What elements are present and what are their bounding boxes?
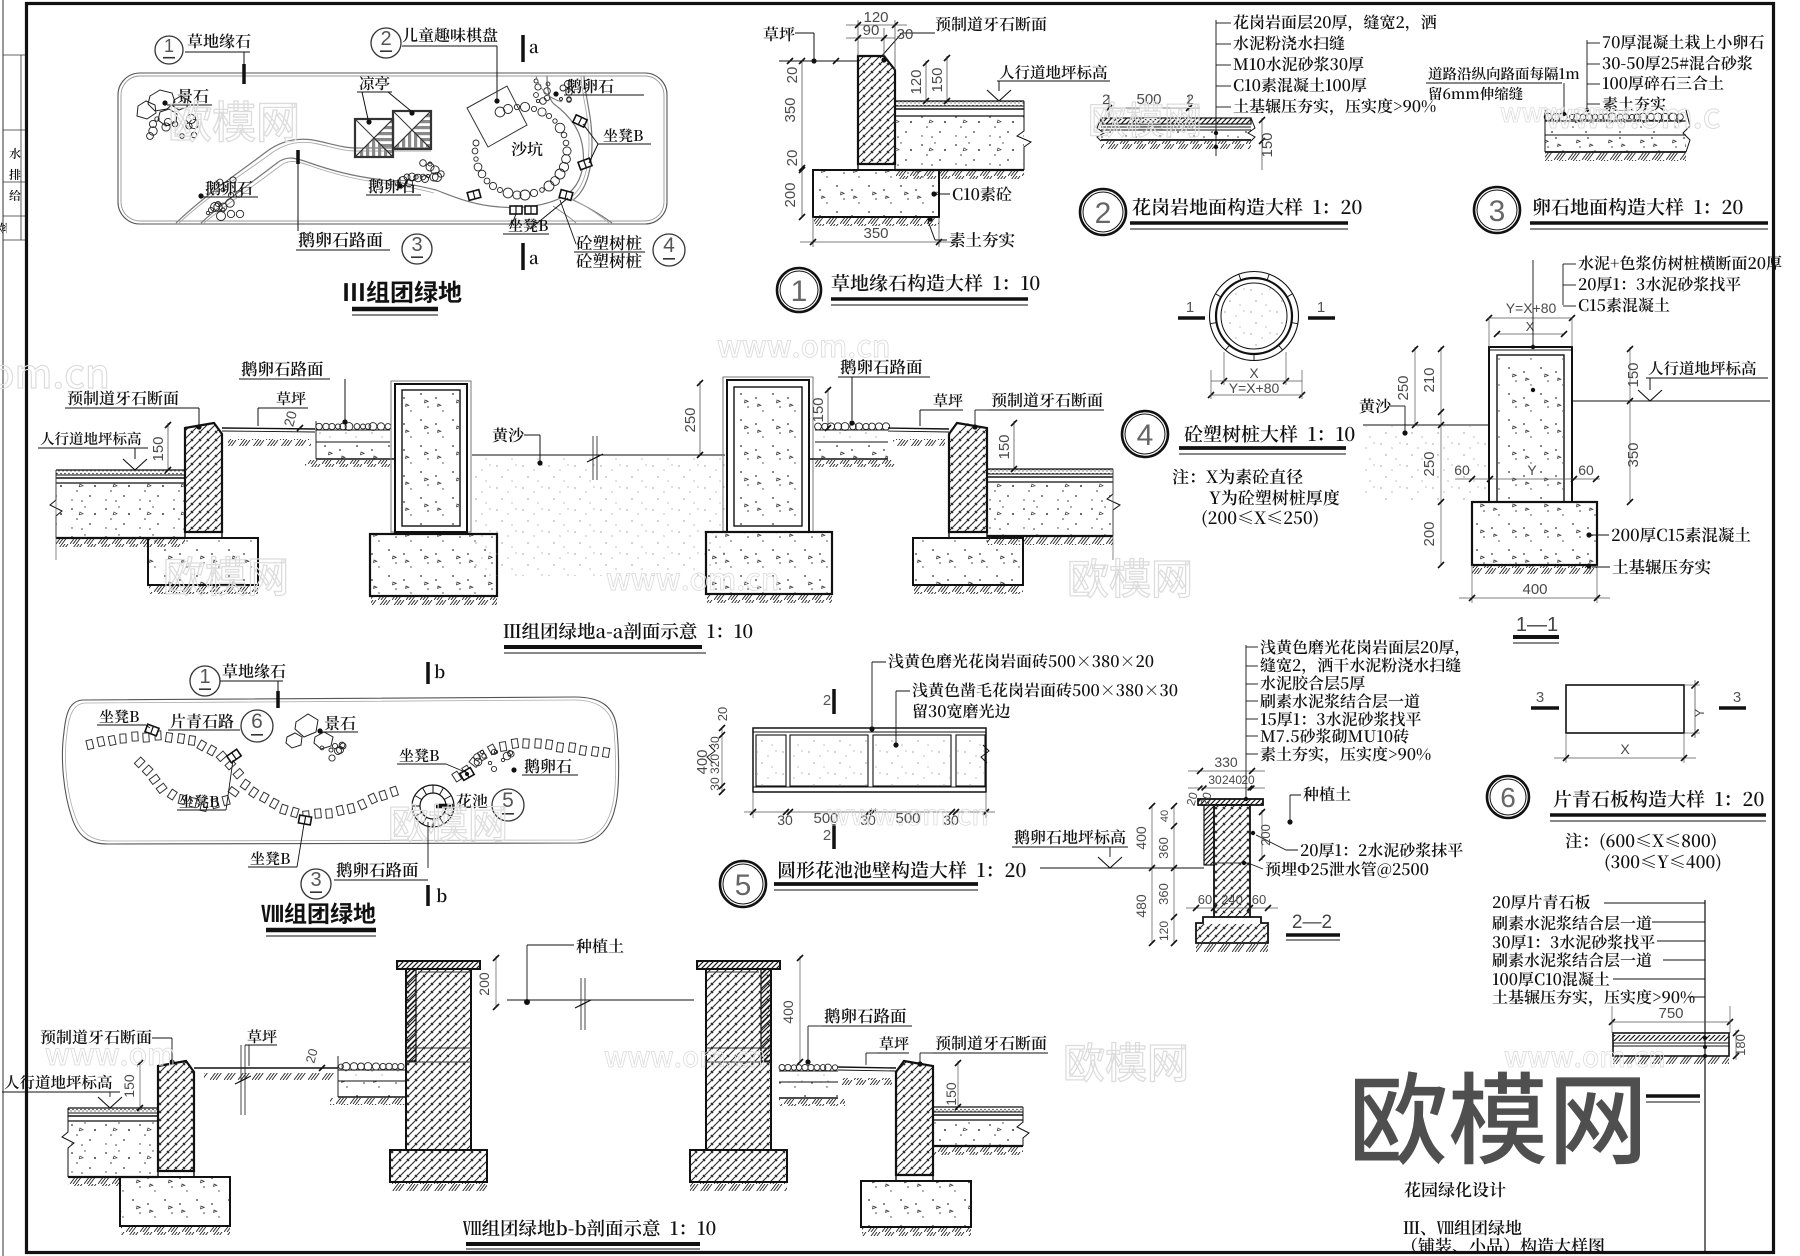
walk loop around sand pit (outer-right branch): [573, 76, 612, 223]
top dims 1-1: [1489, 317, 1572, 319]
callout 3 + title detail3: [1474, 187, 1520, 233]
label planting soil b-b: [576, 938, 623, 953]
sand pit pebble ring: [472, 102, 571, 200]
svg-text:30: 30: [708, 777, 722, 791]
svg-text:30: 30: [777, 812, 793, 828]
title detail 4: [1185, 425, 1355, 443]
wire walk upper edge: [176, 139, 431, 223]
curb bottom pad: [858, 164, 895, 170]
detail3 note l2: [1603, 55, 1753, 70]
d6 layer l4: [1492, 952, 1651, 967]
2-2 note l3: [1260, 675, 1364, 690]
svg-text:750: 750: [1658, 1005, 1683, 1022]
svg-text:1: 1: [164, 36, 174, 56]
svg-text:20: 20: [784, 67, 801, 84]
surface line right 1-1: [1572, 400, 1770, 402]
plan VIII boundary: [62, 697, 618, 844]
curb2 footing: [913, 538, 1023, 585]
left dims 1-1: [1414, 347, 1416, 425]
label curb b-b right: [936, 1035, 1047, 1050]
svg-text:X: X: [1620, 741, 1630, 757]
title detail 1: [832, 274, 1040, 292]
title VIII plan: [261, 902, 375, 924]
label sidewalk level d4: [1649, 361, 1756, 376]
svg-text:250: 250: [1395, 375, 1412, 400]
note X: [1173, 469, 1303, 485]
svg-text:3: 3: [1733, 689, 1741, 706]
flower pool circle VIII: [412, 785, 454, 827]
callout 2 + title detail2: [1080, 189, 1126, 235]
detail3 note l4: [1603, 96, 1666, 111]
dim 150 road right: [827, 388, 829, 430]
leaders top 1-1: [1532, 260, 1534, 345]
svg-text:6: 6: [251, 710, 263, 733]
detail2 note line4: [1234, 77, 1367, 92]
svg-text:1—1: 1—1: [1516, 614, 1558, 636]
svg-text:30: 30: [1208, 773, 1222, 787]
svg-text:240: 240: [1221, 892, 1243, 907]
pavement break mark right: [1017, 101, 1031, 170]
svg-text:150: 150: [943, 1082, 959, 1106]
pebble cluster lower-left: [206, 177, 243, 221]
left sidewalk pavement b-b: [68, 1108, 158, 1113]
walk exit bottom-right inner line: [553, 206, 576, 223]
tick on boundary: [242, 64, 246, 84]
section marks 2 detail5: [832, 689, 836, 714]
label zuodengB mid VIII: [180, 794, 219, 808]
note Y range: [1606, 854, 1721, 871]
break mark planting b-b: [580, 978, 582, 1030]
svg-text:2: 2: [823, 692, 831, 709]
dim 150 right: [1261, 118, 1263, 170]
dim Y detail6: [1684, 684, 1700, 686]
right sidewalk pavement b-b: [933, 1107, 1023, 1112]
right sidewalk pavement a-a: [987, 469, 1113, 474]
title detail 3: [1534, 198, 1743, 216]
slab path chain VIII: [86, 731, 244, 779]
post1 (concrete tree stump) a-a: [391, 381, 471, 532]
svg-text:150: 150: [1625, 362, 1642, 387]
label eluanshilumian a-a left: [242, 361, 323, 376]
title detail 6: [1554, 790, 1764, 808]
svg-text:400: 400: [780, 1000, 796, 1024]
pebble pocket top right: [534, 79, 573, 104]
svg-text:330: 330: [1214, 754, 1238, 770]
svg-text:Y=X+80: Y=X+80: [1506, 300, 1557, 316]
label caodiyuanshi: [188, 33, 251, 48]
right dim 200 2-2: [1261, 810, 1263, 860]
label compacted soil d4: [1613, 559, 1711, 574]
svg-text:1: 1: [1317, 299, 1325, 316]
facing strip left: [1204, 805, 1214, 865]
curb b-b left: [158, 1061, 194, 1171]
dims left 20/350/20/200: [801, 61, 803, 217]
curb block hatched: [858, 56, 895, 164]
svg-text:150: 150: [996, 434, 1013, 459]
60 Y 60 dims: [1455, 478, 1600, 480]
label pebble road b-b: [825, 1008, 906, 1023]
break marks d2: [1097, 118, 1104, 141]
curb a-a right: [949, 423, 987, 532]
title block separator: [1704, 900, 1706, 1252]
curb footing b-b left: [120, 1177, 230, 1226]
d4 note l3: [1579, 297, 1670, 312]
leaders texts detail2: [1215, 20, 1217, 156]
svg-text:3: 3: [1489, 195, 1506, 228]
curb footing a-a left: [148, 538, 258, 585]
footing C10: [813, 170, 939, 217]
title detail 5: [779, 861, 1026, 879]
svg-text:3: 3: [411, 234, 422, 256]
rocks jingshi VIII: [286, 714, 333, 749]
dim 150 curb right: [1013, 421, 1015, 469]
svg-text:240: 240: [1222, 773, 1242, 787]
dim 250 sand: [699, 381, 701, 455]
dim 180 right: [1735, 1030, 1737, 1060]
pebble road a-a right: [815, 423, 890, 431]
note expansion joint l1: [1428, 67, 1579, 81]
detail2 note line1: [1233, 14, 1436, 31]
dims wall B right: [799, 956, 801, 1063]
callout5 + title detail5: [720, 861, 766, 907]
svg-text:20: 20: [784, 150, 801, 167]
section 1-1 post: [1489, 346, 1572, 348]
dim 400 bottom 1-1: [1471, 565, 1473, 603]
svg-text:5: 5: [735, 869, 752, 902]
section mark a top: [521, 35, 525, 62]
d4 note l2: [1579, 276, 1741, 291]
sand left of post 1-1: [1363, 424, 1489, 426]
planting soil line between walls: [507, 999, 694, 1001]
svg-text:30: 30: [897, 26, 914, 43]
label planting soil 2-2: [1303, 786, 1350, 801]
svg-text:350: 350: [863, 225, 888, 242]
sand area between posts: [472, 454, 725, 456]
wall coping 2-2: [1198, 799, 1263, 805]
label shakeng: [511, 141, 542, 156]
2-2 note l2: [1260, 657, 1460, 674]
label huangsha a-a: [493, 427, 524, 442]
svg-text:30: 30: [943, 812, 959, 828]
dim 350 bottom: [812, 217, 814, 247]
scenic rocks jingshi cluster: [137, 90, 188, 126]
detail2 note line3: [1234, 56, 1364, 71]
titleblock project: [1404, 1182, 1505, 1198]
curb b-b right: [896, 1061, 933, 1175]
svg-text:250: 250: [682, 407, 699, 432]
label curb a-a right: [992, 392, 1103, 407]
label grass a-a left: [277, 391, 306, 405]
svg-text:4: 4: [663, 234, 675, 257]
titleblock sheet name l1: [1404, 1220, 1522, 1236]
svg-text:480: 480: [1133, 894, 1149, 918]
label caodiyuanshi VIII: [223, 663, 286, 678]
post2 footing: [706, 532, 832, 594]
pebbles right VIII: [474, 749, 514, 771]
pebble road b-b left: [339, 1063, 405, 1071]
section 1-1 footing: [1472, 502, 1597, 565]
title 3-3 (mostly behind logo): [1646, 1094, 1700, 1097]
svg-text:200: 200: [476, 972, 492, 996]
chessboard rotated square: [467, 86, 527, 147]
leader bracket detail3: [1586, 40, 1588, 108]
wire walk lower edge: [201, 158, 436, 223]
top dims 2-2: [1188, 770, 1265, 772]
break mark sand a-a: [592, 436, 594, 480]
label eluanshilumian a-a right: [841, 359, 922, 374]
label drain 2-2: [1266, 861, 1429, 877]
title section b-b: [463, 1219, 715, 1236]
label curb b-b left: [41, 1029, 152, 1044]
2-2 note l5: [1261, 711, 1421, 726]
label mortar 2-2: [1301, 842, 1463, 857]
svg-text:200: 200: [1258, 824, 1273, 846]
callout 1 VIII + caodiyuanshi: [190, 666, 220, 696]
dims detail5 left: [721, 728, 723, 792]
grass strip a-a left: [222, 428, 315, 429]
label caoping: [764, 26, 795, 41]
label zuodengB bottom: [509, 218, 548, 232]
svg-text:150: 150: [1259, 132, 1276, 157]
grass strip b-b right: [838, 1067, 896, 1068]
benches VIII: [145, 724, 159, 736]
svg-text:2—2: 2—2: [1292, 912, 1332, 933]
label zuodengB tl VIII: [100, 709, 139, 723]
svg-text:1: 1: [791, 275, 808, 308]
section mark a bottom: [521, 243, 525, 270]
break mark grass b-b: [240, 1045, 242, 1115]
post1 footing: [370, 534, 497, 596]
dims mid 120/150 rotated: [925, 61, 927, 101]
section bars 1-1 on circle plan: [1178, 316, 1205, 320]
svg-text:Y: Y: [1692, 708, 1707, 717]
callout 1 caodiyuanshi: [155, 36, 183, 64]
slab band plan: [753, 728, 986, 792]
svg-text:2: 2: [1095, 197, 1112, 230]
small section 3-3 strip: [1612, 1021, 1730, 1023]
svg-text:200: 200: [782, 182, 799, 207]
left dims 2-2: [1151, 805, 1153, 943]
d6 layer l2: [1492, 915, 1651, 930]
detail2 note line2: [1233, 35, 1344, 50]
svg-text:X: X: [1249, 365, 1259, 381]
detail3 note l3: [1603, 75, 1723, 90]
curb footing b-b right: [861, 1181, 971, 1227]
svg-text:150: 150: [121, 1074, 137, 1098]
callout 2 ertong quwei qipan: [371, 28, 401, 58]
svg-text:90: 90: [863, 22, 880, 39]
wall body 2-2: [1214, 805, 1250, 917]
pavement layers right of curb: [895, 101, 1024, 106]
label eluanshi lumian + callout 3: [299, 232, 383, 248]
detail2 note line5: [1234, 98, 1436, 115]
light watermarks: [171, 101, 296, 142]
svg-text:350: 350: [782, 97, 799, 122]
note expansion joint l2: [1429, 87, 1522, 101]
bench B small markers plan III: [573, 115, 587, 127]
svg-text:250: 250: [1421, 451, 1438, 476]
dim 150 curb left: [167, 423, 169, 470]
svg-text:2: 2: [823, 827, 831, 844]
pebble row detail3: [1544, 113, 1683, 121]
note Y: [1209, 489, 1339, 505]
2-2 note l7: [1261, 746, 1431, 763]
granite layer band: [1101, 118, 1251, 124]
label jingshi VIII: [325, 716, 356, 731]
svg-text:320: 320: [708, 754, 722, 774]
label grass b-b left: [248, 1029, 277, 1043]
label congsu shuzhuang x2 + callout 4: [576, 235, 641, 250]
section mark b top: [426, 662, 430, 684]
ground line left 2-2: [1040, 867, 1204, 869]
label C10 su tong: [953, 186, 1012, 201]
pavilion square at 393,111: [393, 111, 431, 149]
post2 a-a: [723, 377, 813, 532]
note range: [1203, 510, 1318, 527]
svg-text:360: 360: [1156, 837, 1171, 859]
big watermark logo: [1355, 1071, 1640, 1165]
plan III boundary (lawn edge, double rounded rect): [118, 73, 667, 224]
left binding strip lines: [2, 0, 4, 1256]
label C15 concrete: [1612, 527, 1750, 542]
wall B: [697, 961, 780, 969]
2-2 note l6: [1261, 728, 1409, 743]
label eluanshi top right: [567, 78, 614, 93]
d6 layer l5: [1493, 972, 1609, 987]
svg-text:Y=X+80: Y=X+80: [1229, 380, 1280, 396]
label eluanshilumian + callout3 VIII: [427, 822, 429, 868]
svg-text:350: 350: [1625, 442, 1642, 467]
label grass a-a right: [934, 393, 963, 407]
svg-text:180: 180: [1733, 1034, 1748, 1056]
d6 layer l1: [1493, 894, 1590, 909]
d5 note1: [888, 653, 1153, 668]
label pebble level 2-2: [1015, 829, 1126, 844]
dims circle plan X / Y=X+80: [1211, 380, 1302, 382]
svg-text:60: 60: [1198, 892, 1212, 907]
svg-text:60: 60: [1454, 462, 1470, 478]
svg-text:20: 20: [715, 707, 730, 721]
svg-text:150: 150: [929, 67, 946, 92]
title section a-a: [504, 622, 753, 639]
svg-text:3: 3: [310, 869, 321, 891]
title detail 2: [1132, 198, 1361, 216]
left sidewalk pavement a-a: [56, 470, 185, 475]
d4 note l1: [1578, 255, 1781, 270]
dim X detail6: [1565, 733, 1567, 763]
svg-text:120: 120: [908, 69, 925, 94]
svg-text:1: 1: [199, 666, 210, 688]
callout 4 + title detail4: [1122, 411, 1168, 457]
grass strip b-b left: [194, 1067, 338, 1069]
bracket detail6: [1704, 903, 1706, 1045]
section mark b bottom: [426, 885, 430, 906]
d6 layer l6: [1493, 989, 1695, 1006]
svg-text:150: 150: [810, 397, 827, 422]
wall A: [397, 961, 480, 969]
label zuodengB right: [604, 128, 643, 142]
pebble road a-a left: [316, 423, 391, 431]
label eluanshi lower-left: [206, 180, 253, 195]
label curb a-a left: [68, 390, 179, 405]
section bars 3 detail6: [1531, 706, 1559, 710]
label renxingdao dipingbiaogao: [1000, 65, 1107, 80]
svg-text:400: 400: [1133, 826, 1149, 850]
2-2 note l1: [1260, 639, 1458, 656]
label sidewalk level b-b: [5, 1075, 112, 1090]
dim 60 240 60 2-2: [1186, 907, 1278, 909]
2-2 note l4: [1260, 693, 1419, 708]
d5 note2: [912, 682, 1177, 697]
svg-text:1: 1: [1186, 299, 1194, 316]
svg-text:30: 30: [708, 736, 722, 750]
walk loop around sand pit (outer): [436, 76, 583, 208]
leader texts 2-2 right: [1245, 645, 1247, 797]
svg-text:4: 4: [1137, 419, 1154, 452]
svg-text:120: 120: [1157, 921, 1171, 941]
label sidewalk level a-a left: [41, 432, 141, 446]
right dims 1-1: [1629, 347, 1631, 502]
label huangsha d4: [1360, 398, 1391, 413]
footing 2-2: [1196, 917, 1268, 943]
svg-text:60: 60: [1578, 462, 1594, 478]
curb a-a left: [185, 423, 222, 532]
label eluanshi mid: [369, 178, 416, 193]
label sutu hangshi: [950, 232, 1015, 247]
dims detail5 bottom 30/500: [752, 792, 754, 818]
svg-text:Y: Y: [1527, 462, 1537, 478]
dim 150 b-b left: [139, 1061, 141, 1108]
dim 500 and 2,2: [1108, 95, 1110, 118]
grass line left: [779, 60, 858, 62]
svg-text:400: 400: [1522, 581, 1547, 598]
pebble road b-b right: [779, 1064, 838, 1071]
callout 6 + title detail6: [1487, 776, 1529, 818]
callout 1 + title detail1: [777, 268, 821, 312]
label zuodengB bottom VIII: [251, 851, 290, 865]
d5 note3: [914, 703, 1010, 718]
label zuodengB right VIII: [400, 748, 439, 762]
dims wall A right: [495, 956, 497, 1008]
note X range: [1566, 833, 1716, 851]
label yuzhidaoyashi duanmian: [936, 16, 1047, 31]
svg-text:6: 6: [1500, 782, 1516, 813]
titleblock sheet name l2: [1412, 1238, 1604, 1254]
dims top 120/90/30: [857, 20, 859, 56]
svg-text:2: 2: [380, 28, 391, 50]
label grass b-b right: [880, 1036, 909, 1050]
svg-text:150: 150: [150, 436, 167, 461]
svg-text:3: 3: [1536, 689, 1544, 706]
svg-text:20: 20: [1241, 773, 1255, 787]
svg-text:210: 210: [1421, 367, 1438, 392]
svg-text:360: 360: [1156, 883, 1171, 905]
svg-text:60: 60: [1252, 892, 1266, 907]
svg-text:200: 200: [1421, 521, 1438, 546]
label liangting: [360, 76, 390, 90]
grass strip a-a right: [888, 428, 949, 429]
d6 layer l3: [1493, 934, 1655, 949]
title III plan: [344, 281, 461, 304]
label ertongquweiqipan: [402, 27, 497, 42]
leader left (expansion joint): [1563, 83, 1565, 112]
label huachi + callout5: [456, 793, 487, 808]
svg-text:40: 40: [1159, 810, 1171, 822]
label jingshi: [178, 89, 209, 104]
detail3 note l1: [1603, 34, 1764, 49]
label eluanshi VIII: [525, 758, 572, 773]
circle plan detail4: [1210, 272, 1299, 361]
